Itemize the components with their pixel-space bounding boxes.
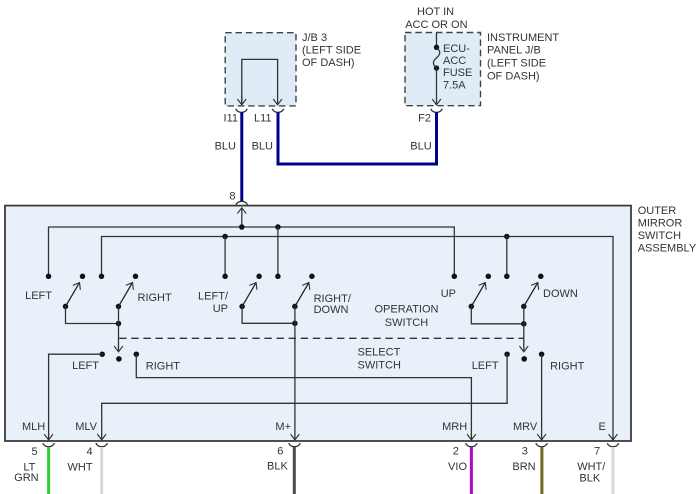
wire right select LEFT contact to MLV: [102, 354, 507, 440]
wire left select LEFT contact to MLH: [49, 354, 103, 440]
instrument panel J/B dashed box: [405, 33, 481, 106]
svg-text:J/B 3: J/B 3: [302, 32, 327, 44]
svg-text:INSTRUMENT: INSTRUMENT: [487, 32, 559, 44]
svg-text:LEFT: LEFT: [72, 360, 99, 372]
connector cup MRV pin 3: [536, 443, 548, 447]
select switch left: common node: [116, 356, 122, 362]
wire fuse to F2: [436, 68, 438, 105]
svg-text:DOWN: DOWN: [543, 288, 578, 300]
svg-text:BLU: BLU: [252, 141, 273, 153]
svg-text:SELECT: SELECT: [358, 346, 401, 358]
select switch right: common node: [521, 356, 527, 362]
jumper wire inside J/B 3: [242, 59, 278, 104]
svg-text:ASSEMBLY: ASSEMBLY: [638, 243, 697, 255]
switch S1 LEFT: [46, 274, 86, 310]
connector pin 8: [236, 201, 248, 205]
svg-text:5: 5: [31, 446, 37, 458]
outer mirror switch assembly box: [5, 206, 631, 441]
svg-text:DOWN: DOWN: [314, 304, 349, 316]
svg-text:ECU-: ECU-: [443, 43, 470, 55]
svg-text:LEFT: LEFT: [25, 290, 52, 302]
svg-text:BRN: BRN: [512, 461, 535, 473]
node S3 feed on bus B: [222, 234, 228, 240]
wire S3 feed: [224, 237, 226, 277]
select switch left: RIGHT contact: [134, 351, 140, 357]
pin 8 entry arrow: [241, 208, 243, 227]
svg-text:3: 3: [522, 446, 528, 458]
wire S5 pivot to S6 column: [471, 306, 524, 323]
svg-text:FUSE: FUSE: [443, 67, 472, 79]
wire S2 pivot down to left select common (arrow): [118, 306, 120, 351]
connector F2: [431, 109, 443, 113]
svg-text:WHT/: WHT/: [577, 461, 606, 473]
svg-text:PANEL J/B: PANEL J/B: [487, 45, 541, 57]
svg-text:RIGHT: RIGHT: [138, 292, 173, 304]
node S5/S6 common junction: [521, 321, 527, 327]
switch S4 RIGHT/DOWN: [275, 274, 315, 310]
svg-text:E: E: [599, 421, 606, 433]
svg-text:MIRROR: MIRROR: [638, 218, 683, 230]
wire VIO: [470, 447, 473, 494]
node S3/S4 common junction: [292, 321, 298, 327]
svg-text:GRN: GRN: [14, 472, 39, 484]
svg-text:F2: F2: [418, 113, 431, 125]
switch S5 UP: [452, 274, 492, 310]
svg-text:BLU: BLU: [410, 141, 431, 153]
svg-text:7.5A: 7.5A: [443, 80, 466, 92]
wire BLU I11 to pin 8: [240, 112, 243, 201]
select switch right: LEFT contact: [504, 351, 510, 357]
node pin8 on bus A: [239, 224, 245, 230]
svg-text:OF DASH): OF DASH): [302, 57, 355, 69]
svg-text:RIGHT: RIGHT: [146, 361, 181, 373]
svg-text:UP: UP: [213, 303, 228, 315]
svg-text:RIGHT: RIGHT: [550, 361, 585, 373]
svg-text:L11: L11: [254, 113, 272, 125]
wire S3 pivot to S4 column: [242, 306, 295, 323]
svg-text:ACC: ACC: [443, 55, 466, 67]
svg-text:LEFT/: LEFT/: [198, 291, 229, 303]
select switch left: LEFT contact: [99, 351, 105, 357]
svg-text:OUTER: OUTER: [638, 205, 677, 217]
wire BLK: [293, 447, 296, 494]
svg-text:6: 6: [277, 445, 283, 457]
svg-text:BLK: BLK: [579, 473, 600, 485]
connector L11: [272, 109, 284, 113]
wire feed into fuse: [436, 33, 438, 48]
node S4 feed on bus A: [275, 224, 281, 230]
svg-text:SWITCH: SWITCH: [385, 317, 428, 329]
svg-text:2: 2: [453, 446, 459, 458]
svg-text:MLH: MLH: [22, 421, 45, 433]
wire S6 feed: [506, 237, 508, 277]
J/B 3 dashed box: [225, 33, 296, 106]
node S6 feed on bus B: [504, 234, 510, 240]
wire left select RIGHT contact to MRH: [136, 354, 471, 440]
select switch right: RIGHT contact: [539, 351, 545, 357]
svg-text:ACC OR ON: ACC OR ON: [405, 19, 467, 31]
svg-text:MRH: MRH: [442, 421, 467, 433]
connector cup MLH pin 5: [43, 443, 55, 447]
svg-text:OF DASH): OF DASH): [487, 71, 540, 83]
switch S3 LEFT/UP: [222, 274, 262, 310]
wire BRN: [540, 447, 543, 494]
svg-text:BLK: BLK: [267, 461, 288, 473]
svg-text:(LEFT SIDE: (LEFT SIDE: [302, 45, 361, 57]
svg-text:I11: I11: [224, 113, 238, 125]
svg-text:WHT: WHT: [68, 461, 93, 473]
wire LT GRN: [47, 447, 50, 494]
svg-text:MLV: MLV: [75, 421, 97, 433]
connector cup MRH pin 2: [466, 443, 478, 447]
svg-text:BLU: BLU: [215, 141, 236, 153]
svg-text:LEFT: LEFT: [472, 360, 499, 372]
svg-text:8: 8: [229, 191, 235, 203]
bus A wire: [49, 227, 455, 276]
svg-text:UP: UP: [441, 288, 456, 300]
bus B wire: [102, 237, 614, 440]
svg-text:7: 7: [594, 446, 600, 458]
svg-text:HOT IN: HOT IN: [417, 6, 454, 18]
wire right select RIGHT contact to MRV: [541, 354, 543, 440]
wire S6 pivot down to right select common (arrow): [523, 306, 525, 351]
svg-text:4: 4: [86, 446, 92, 458]
node S1/S2 common junction: [116, 321, 122, 327]
fuse ECU-ACC 7.5A: [434, 45, 439, 50]
wire WHT: [100, 447, 103, 494]
wire WHT/BLK: [612, 447, 615, 494]
connector cup M+ pin 6: [289, 443, 301, 447]
svg-text:VIO: VIO: [448, 461, 467, 473]
wire S4 feed: [277, 227, 279, 276]
wire BLU L11 to F2: [278, 112, 437, 164]
svg-text:OPERATION: OPERATION: [375, 304, 439, 316]
switch S2 RIGHT: [99, 274, 139, 310]
svg-text:SWITCH: SWITCH: [638, 230, 681, 242]
svg-text:(LEFT SIDE: (LEFT SIDE: [487, 58, 546, 70]
connector I11: [236, 109, 248, 113]
wire S4 pivot down to M+ terminal: [294, 306, 296, 440]
svg-text:M+: M+: [275, 421, 291, 433]
connector cup E pin 7: [607, 443, 619, 447]
dashed separator operation/select: [119, 337, 524, 339]
svg-text:MRV: MRV: [513, 421, 538, 433]
switch S6 DOWN: [504, 274, 544, 310]
svg-text:SWITCH: SWITCH: [358, 360, 401, 372]
wire S1 pivot to S2 column: [66, 306, 119, 323]
connector cup MLV pin 4: [96, 443, 108, 447]
